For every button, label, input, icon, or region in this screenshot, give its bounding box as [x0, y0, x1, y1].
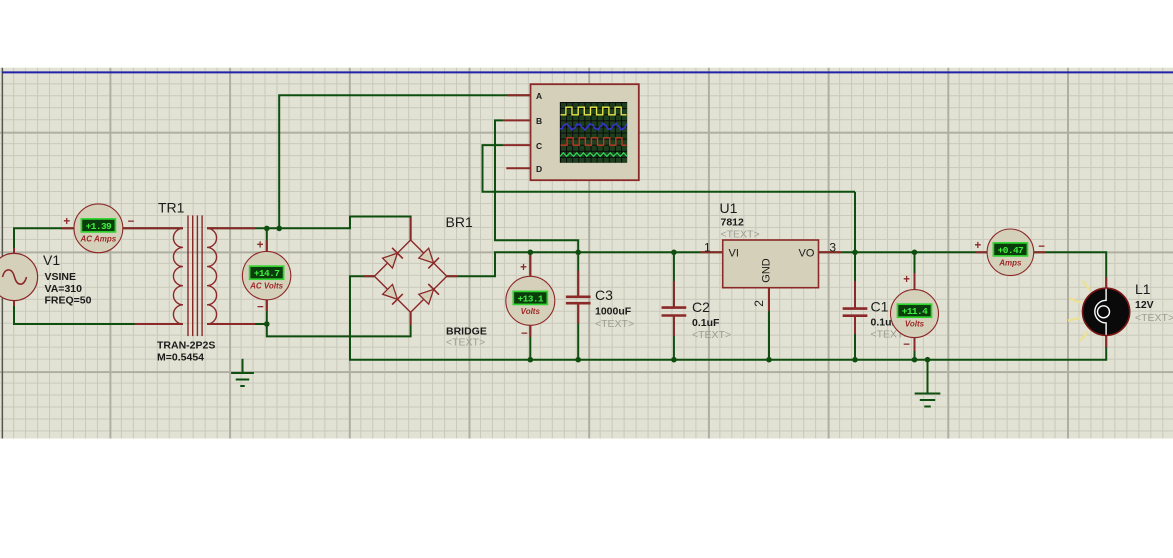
svg-text:+0.47: +0.47	[998, 245, 1024, 256]
svg-text:Amps: Amps	[998, 258, 1022, 267]
svg-text:3: 3	[829, 240, 836, 254]
svg-text:<TEXT>: <TEXT>	[595, 318, 634, 330]
svg-text:C2: C2	[692, 299, 710, 315]
svg-text:<TEXT>: <TEXT>	[721, 229, 760, 241]
svg-text:−: −	[521, 328, 528, 340]
svg-text:L1: L1	[1135, 281, 1151, 297]
svg-text:+: +	[974, 240, 981, 252]
svg-text:+: +	[903, 274, 910, 286]
svg-text:−: −	[1038, 241, 1045, 253]
svg-text:M=0.5454: M=0.5454	[157, 352, 204, 364]
svg-text:7812: 7812	[721, 217, 745, 229]
svg-text:U1: U1	[720, 200, 738, 216]
svg-text:<TEXT>: <TEXT>	[692, 329, 731, 341]
svg-text:VA=310: VA=310	[45, 283, 83, 295]
svg-text:12V: 12V	[1135, 299, 1154, 311]
svg-text:1: 1	[704, 240, 711, 254]
svg-text:<TEXT>: <TEXT>	[1135, 312, 1173, 324]
svg-text:+: +	[63, 216, 70, 228]
svg-text:AC Volts: AC Volts	[249, 282, 284, 291]
svg-text:Volts: Volts	[905, 320, 925, 329]
svg-text:TRAN-2P2S: TRAN-2P2S	[157, 340, 215, 352]
svg-text:2: 2	[752, 300, 766, 307]
svg-text:B: B	[536, 116, 542, 126]
svg-text:V1: V1	[43, 252, 60, 268]
svg-text:VSINE: VSINE	[45, 271, 77, 283]
svg-text:C1: C1	[871, 299, 889, 315]
svg-text:+: +	[520, 262, 527, 274]
svg-text:GND: GND	[761, 258, 773, 283]
svg-text:FREQ=50: FREQ=50	[45, 295, 92, 307]
svg-text:BR1: BR1	[446, 214, 473, 230]
svg-text:C: C	[536, 141, 542, 151]
svg-text:−: −	[903, 339, 910, 351]
svg-text:D: D	[536, 164, 542, 174]
svg-text:VO: VO	[799, 248, 815, 260]
svg-text:−: −	[257, 302, 264, 314]
svg-text:A: A	[536, 91, 542, 101]
svg-text:TR1: TR1	[158, 200, 185, 216]
svg-text:−: −	[128, 216, 135, 228]
svg-text:AC Amps: AC Amps	[80, 234, 117, 243]
svg-text:1000uF: 1000uF	[595, 306, 632, 318]
svg-text:+: +	[257, 239, 264, 251]
svg-text:+1.39: +1.39	[86, 221, 112, 232]
svg-text:+14.7: +14.7	[254, 268, 280, 279]
svg-text:C3: C3	[595, 287, 613, 303]
svg-text:0.1uF: 0.1uF	[692, 317, 720, 329]
svg-text:Volts: Volts	[521, 307, 541, 316]
svg-text:<TEXT>: <TEXT>	[446, 337, 485, 349]
svg-text:VI: VI	[729, 248, 739, 260]
svg-text:+11.4: +11.4	[902, 306, 928, 317]
svg-text:+13.1: +13.1	[518, 293, 544, 304]
